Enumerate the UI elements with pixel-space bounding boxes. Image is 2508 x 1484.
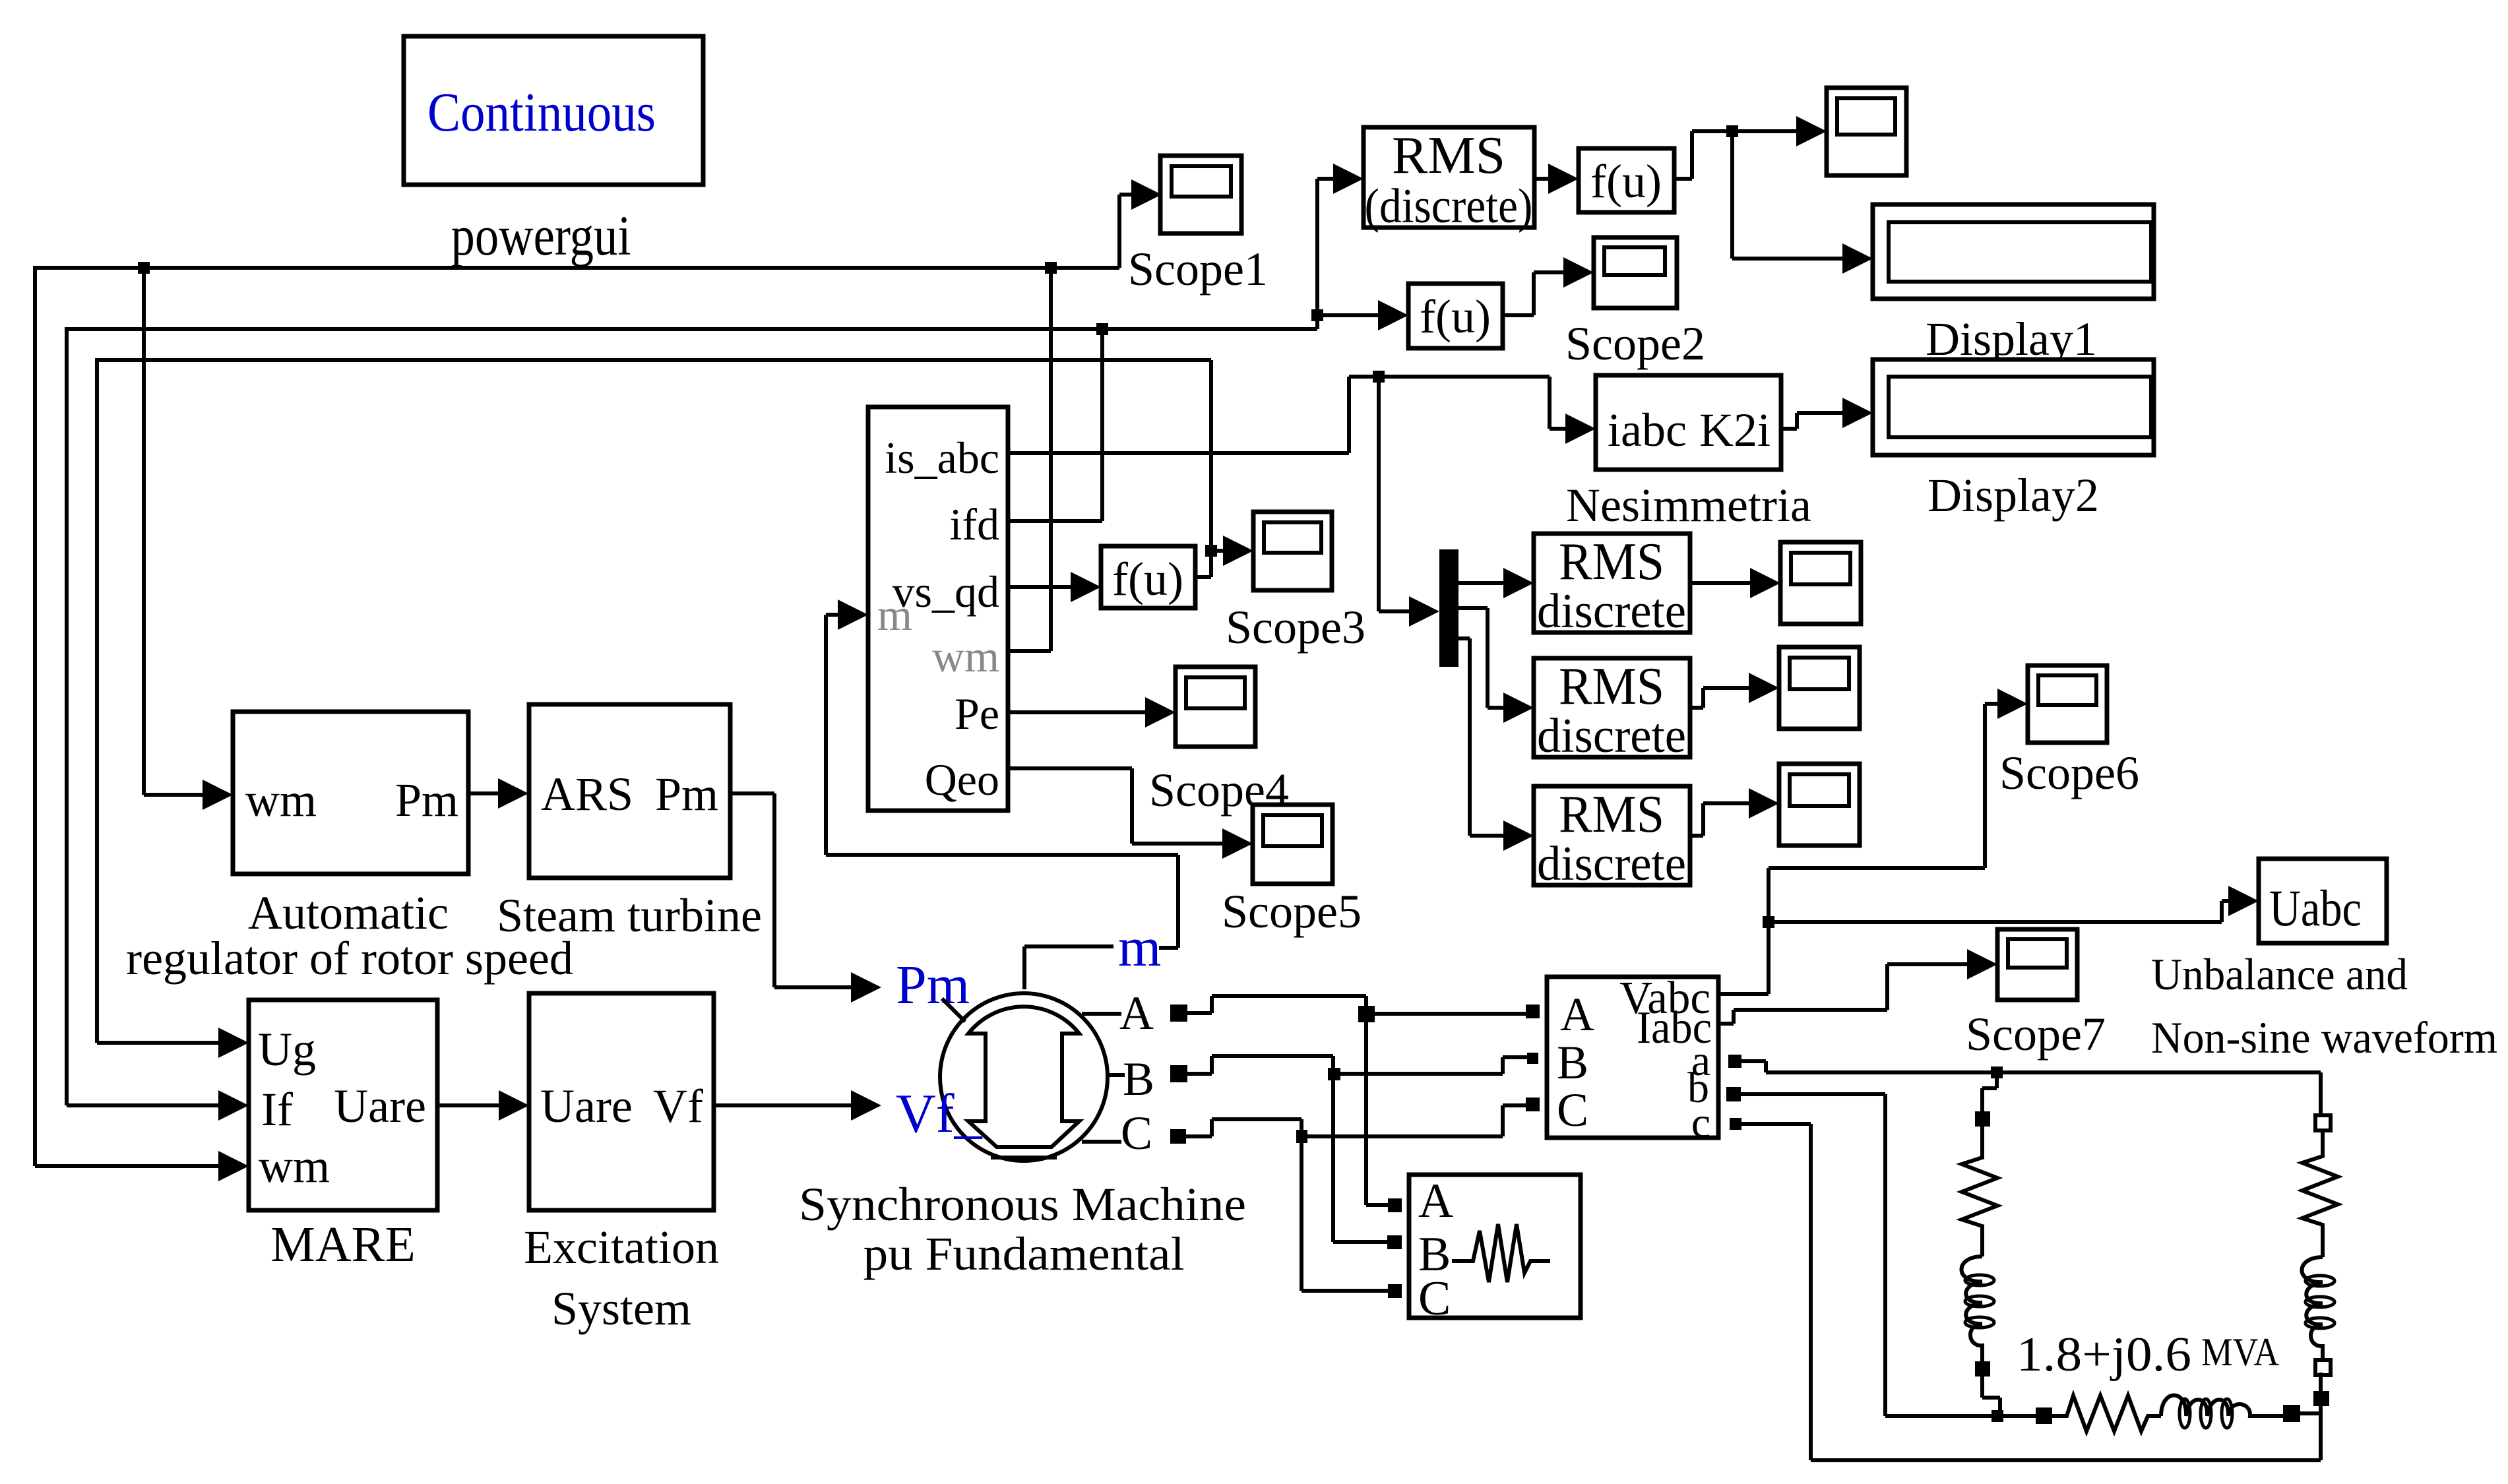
stator contour xyxy=(968,1006,1079,1147)
svg-text:ifd: ifd xyxy=(949,499,999,549)
load zigzag icon xyxy=(1452,1224,1550,1282)
wire machine C phase xyxy=(1082,1098,1540,1298)
RMS discrete 2 xyxy=(1534,658,1690,763)
iabc K2i block (Nesimmetria) xyxy=(1566,375,1811,532)
Three-phase load block xyxy=(1409,1174,1581,1326)
svg-text:powergui: powergui xyxy=(451,204,631,267)
svg-text:Pm: Pm xyxy=(395,774,458,826)
svg-text:B: B xyxy=(1557,1036,1588,1089)
wires demux bar outputs to RMS blocks xyxy=(1458,568,1534,851)
svg-text:1.8+j0.6: 1.8+j0.6 xyxy=(2017,1328,2191,1382)
junction f(u)2 branch xyxy=(1311,309,1323,321)
svg-text:RMS: RMS xyxy=(1392,127,1505,185)
Synchronous Machine block xyxy=(799,917,1246,1280)
svg-text:Automatic: Automatic xyxy=(248,886,449,939)
left RL branch (series RLC) xyxy=(1962,1111,1998,1376)
Scope1 xyxy=(1128,156,1268,295)
wire Vf Excitation to machine xyxy=(714,1090,881,1121)
svg-text:Qeo: Qeo xyxy=(925,755,999,805)
wire If-net (ifd to MARE If, f(u), RMS discrete) xyxy=(67,164,1408,1121)
svg-text:C: C xyxy=(1418,1272,1451,1326)
scope small C xyxy=(1779,764,1860,846)
svg-text:Continuous: Continuous xyxy=(427,82,656,143)
svg-text:Scope6: Scope6 xyxy=(1999,747,2139,799)
wire Uare MARE to Excitation xyxy=(437,1090,529,1121)
Excitation System block xyxy=(524,993,719,1335)
svg-text:Scope3: Scope3 xyxy=(1226,601,1365,654)
svg-text:RMS: RMS xyxy=(1559,533,1664,591)
svg-text:Ug: Ug xyxy=(258,1023,316,1076)
svg-text:MVA: MVA xyxy=(2201,1330,2279,1374)
wire vs_qd to f(u)1 xyxy=(1008,572,1101,602)
arrow into MARE wm xyxy=(218,1151,249,1181)
powergui block xyxy=(404,36,703,267)
wire phase c net (bottom return) xyxy=(1730,1118,2329,1460)
scope (top right) xyxy=(1827,88,1906,175)
svg-text:m: m xyxy=(1118,917,1161,978)
scope small A xyxy=(1780,542,1861,624)
svg-text:A: A xyxy=(1560,988,1594,1041)
wire Iabc to Scope7 xyxy=(1718,949,1997,1024)
label 1.8+j0.6 MVA xyxy=(2017,1328,2279,1382)
svg-text:Non-sine waveform: Non-sine waveform xyxy=(2151,1012,2497,1063)
Fcn f(u)2 xyxy=(1408,284,1503,348)
MARE block xyxy=(249,1000,437,1272)
svg-text:is_abc: is_abc xyxy=(885,433,999,483)
wire is_abc net (to iabc K2i and demux bar) xyxy=(1008,371,1596,627)
arrow into iabc K2i xyxy=(1565,414,1596,444)
Scope5 xyxy=(1222,805,1362,938)
wire Pm Steam turbine to machine xyxy=(730,793,881,1003)
svg-text:Vf_: Vf_ xyxy=(896,1083,983,1144)
svg-text:Display2: Display2 xyxy=(1928,469,2099,522)
svg-text:If: If xyxy=(261,1083,293,1136)
wire phase b net (bottom row with RL load) xyxy=(1726,1087,2321,1422)
svg-text:Uabc: Uabc xyxy=(2269,879,2362,937)
wire machine A phase xyxy=(1082,996,1540,1212)
arrow into ARS wm xyxy=(203,780,233,810)
svg-text:Steam turbine: Steam turbine xyxy=(497,889,762,942)
Steam turbine block xyxy=(497,704,762,942)
svg-text:discrete: discrete xyxy=(1537,709,1686,763)
arrow into Scope1 xyxy=(1131,179,1162,210)
svg-text:RMS: RMS xyxy=(1559,786,1664,844)
wires RMS blocks to scopes xyxy=(1690,568,1780,836)
svg-text:System: System xyxy=(551,1282,691,1335)
wire Pe to Scope4 xyxy=(1008,697,1176,727)
bottom RL branch (series RLC horizontal) xyxy=(2036,1396,2300,1432)
right RL branch (series RLC) xyxy=(2302,1115,2338,1375)
svg-text:B: B xyxy=(1123,1053,1154,1105)
Scope2 xyxy=(1565,237,1705,370)
Three-Phase V-I Measurement block xyxy=(1547,973,1718,1147)
wire Vabc net (to Scope6 and Uabc) xyxy=(1718,689,2259,994)
svg-text:c: c xyxy=(1691,1099,1710,1147)
svg-text:wm: wm xyxy=(932,631,999,681)
wire machine B phase xyxy=(1094,1053,1538,1249)
svg-text:Scope5: Scope5 xyxy=(1222,885,1362,938)
Scope3 xyxy=(1226,512,1365,654)
wire K2i out to Display2 xyxy=(1781,398,1873,429)
svg-text:(discrete): (discrete) xyxy=(1365,179,1533,233)
Automatic regulator of rotor speed block xyxy=(126,712,573,985)
Display1 xyxy=(1873,204,2154,365)
demux bar xyxy=(1439,549,1458,667)
svg-text:Excitation: Excitation xyxy=(524,1221,719,1274)
Scope4 xyxy=(1149,667,1289,817)
wire f(u)3 out to scope and Display1 xyxy=(1674,116,1873,274)
annotation Unbalance and Non-sine waveform xyxy=(2151,949,2497,1063)
RMS discrete 3 xyxy=(1534,786,1690,891)
arrow into MARE If xyxy=(218,1090,249,1121)
wire f(u)2 out to Scope2 xyxy=(1503,257,1594,315)
wire RMS discrete to f(u)3 xyxy=(1534,164,1579,194)
svg-text:Pm: Pm xyxy=(655,768,718,820)
junction Scope3 branch xyxy=(1205,545,1217,557)
svg-text:RMS: RMS xyxy=(1559,658,1664,716)
wire Qeo to Scope5 xyxy=(1008,768,1253,859)
junction is_abc xyxy=(1373,371,1385,383)
svg-text:Synchronous Machine: Synchronous Machine xyxy=(799,1178,1246,1231)
svg-text:A: A xyxy=(1418,1174,1453,1228)
wire wm-net (machine speed to Scope1/ARS/MARE) xyxy=(35,179,1162,1181)
svg-text:Uare: Uare xyxy=(334,1080,426,1132)
wire m (machine m output to bus selector) xyxy=(826,600,1178,989)
Uabc Goto block xyxy=(2259,859,2387,943)
svg-text:Uare: Uare xyxy=(540,1080,633,1132)
svg-text:Scope7: Scope7 xyxy=(1966,1008,2106,1061)
Display2 xyxy=(1873,359,2154,522)
svg-text:f(u): f(u) xyxy=(1112,553,1183,605)
RMS (discrete) block xyxy=(1364,127,1534,233)
wire Pm ARS to Steam turbine xyxy=(468,778,528,809)
arrow into demux bar xyxy=(1409,596,1439,627)
svg-text:iabc: iabc xyxy=(1608,404,1687,456)
Fcn f(u)3 xyxy=(1579,148,1674,212)
wire phase a net (to RL branches) xyxy=(1728,1055,2321,1115)
Fcn f(u)1 xyxy=(1101,546,1195,608)
svg-text:Scope2: Scope2 xyxy=(1565,317,1705,370)
svg-text:ARS: ARS xyxy=(541,768,633,820)
wire Ug-net (f(u)1 output to Scope3 and MARE Ug) xyxy=(97,358,1253,1058)
svg-text:f(u): f(u) xyxy=(1420,290,1491,343)
junction ifd riser xyxy=(1096,323,1108,335)
machine measurement bus selector block xyxy=(868,407,1008,811)
svg-text:f(u): f(u) xyxy=(1590,155,1662,208)
arrow into f(u)2 xyxy=(1378,300,1408,330)
arrow into RMS discrete xyxy=(1333,164,1364,194)
svg-text:discrete: discrete xyxy=(1537,584,1686,638)
scope small B xyxy=(1779,647,1860,729)
svg-text:discrete: discrete xyxy=(1537,837,1686,891)
svg-text:MARE: MARE xyxy=(270,1217,416,1272)
svg-text:pu Fundamental: pu Fundamental xyxy=(863,1227,1185,1280)
arrow into Scope3 xyxy=(1223,536,1253,566)
svg-text:wm: wm xyxy=(259,1140,330,1192)
arrow into MARE Ug xyxy=(218,1028,249,1058)
svg-text:Vf: Vf xyxy=(653,1080,703,1132)
svg-text:wm: wm xyxy=(245,774,317,826)
junction wm riser xyxy=(1045,262,1057,274)
svg-text:Scope1: Scope1 xyxy=(1128,243,1268,295)
svg-text:Pm: Pm xyxy=(896,954,970,1016)
svg-text:C: C xyxy=(1121,1107,1152,1159)
Scope6 xyxy=(1999,665,2139,799)
bottom chord xyxy=(991,1156,1057,1159)
svg-text:C: C xyxy=(1557,1084,1588,1136)
svg-text:Nesimmetria: Nesimmetria xyxy=(1566,479,1811,532)
svg-text:Pe: Pe xyxy=(955,689,999,739)
svg-text:Unbalance and: Unbalance and xyxy=(2151,949,2408,999)
svg-text:A: A xyxy=(1119,987,1154,1039)
svg-text:K2i: K2i xyxy=(1699,404,1771,456)
RMS discrete 1 xyxy=(1534,533,1690,638)
svg-text:m: m xyxy=(877,590,912,640)
Scope7 xyxy=(1966,929,2106,1061)
junction wm at line A x218 xyxy=(138,262,150,274)
